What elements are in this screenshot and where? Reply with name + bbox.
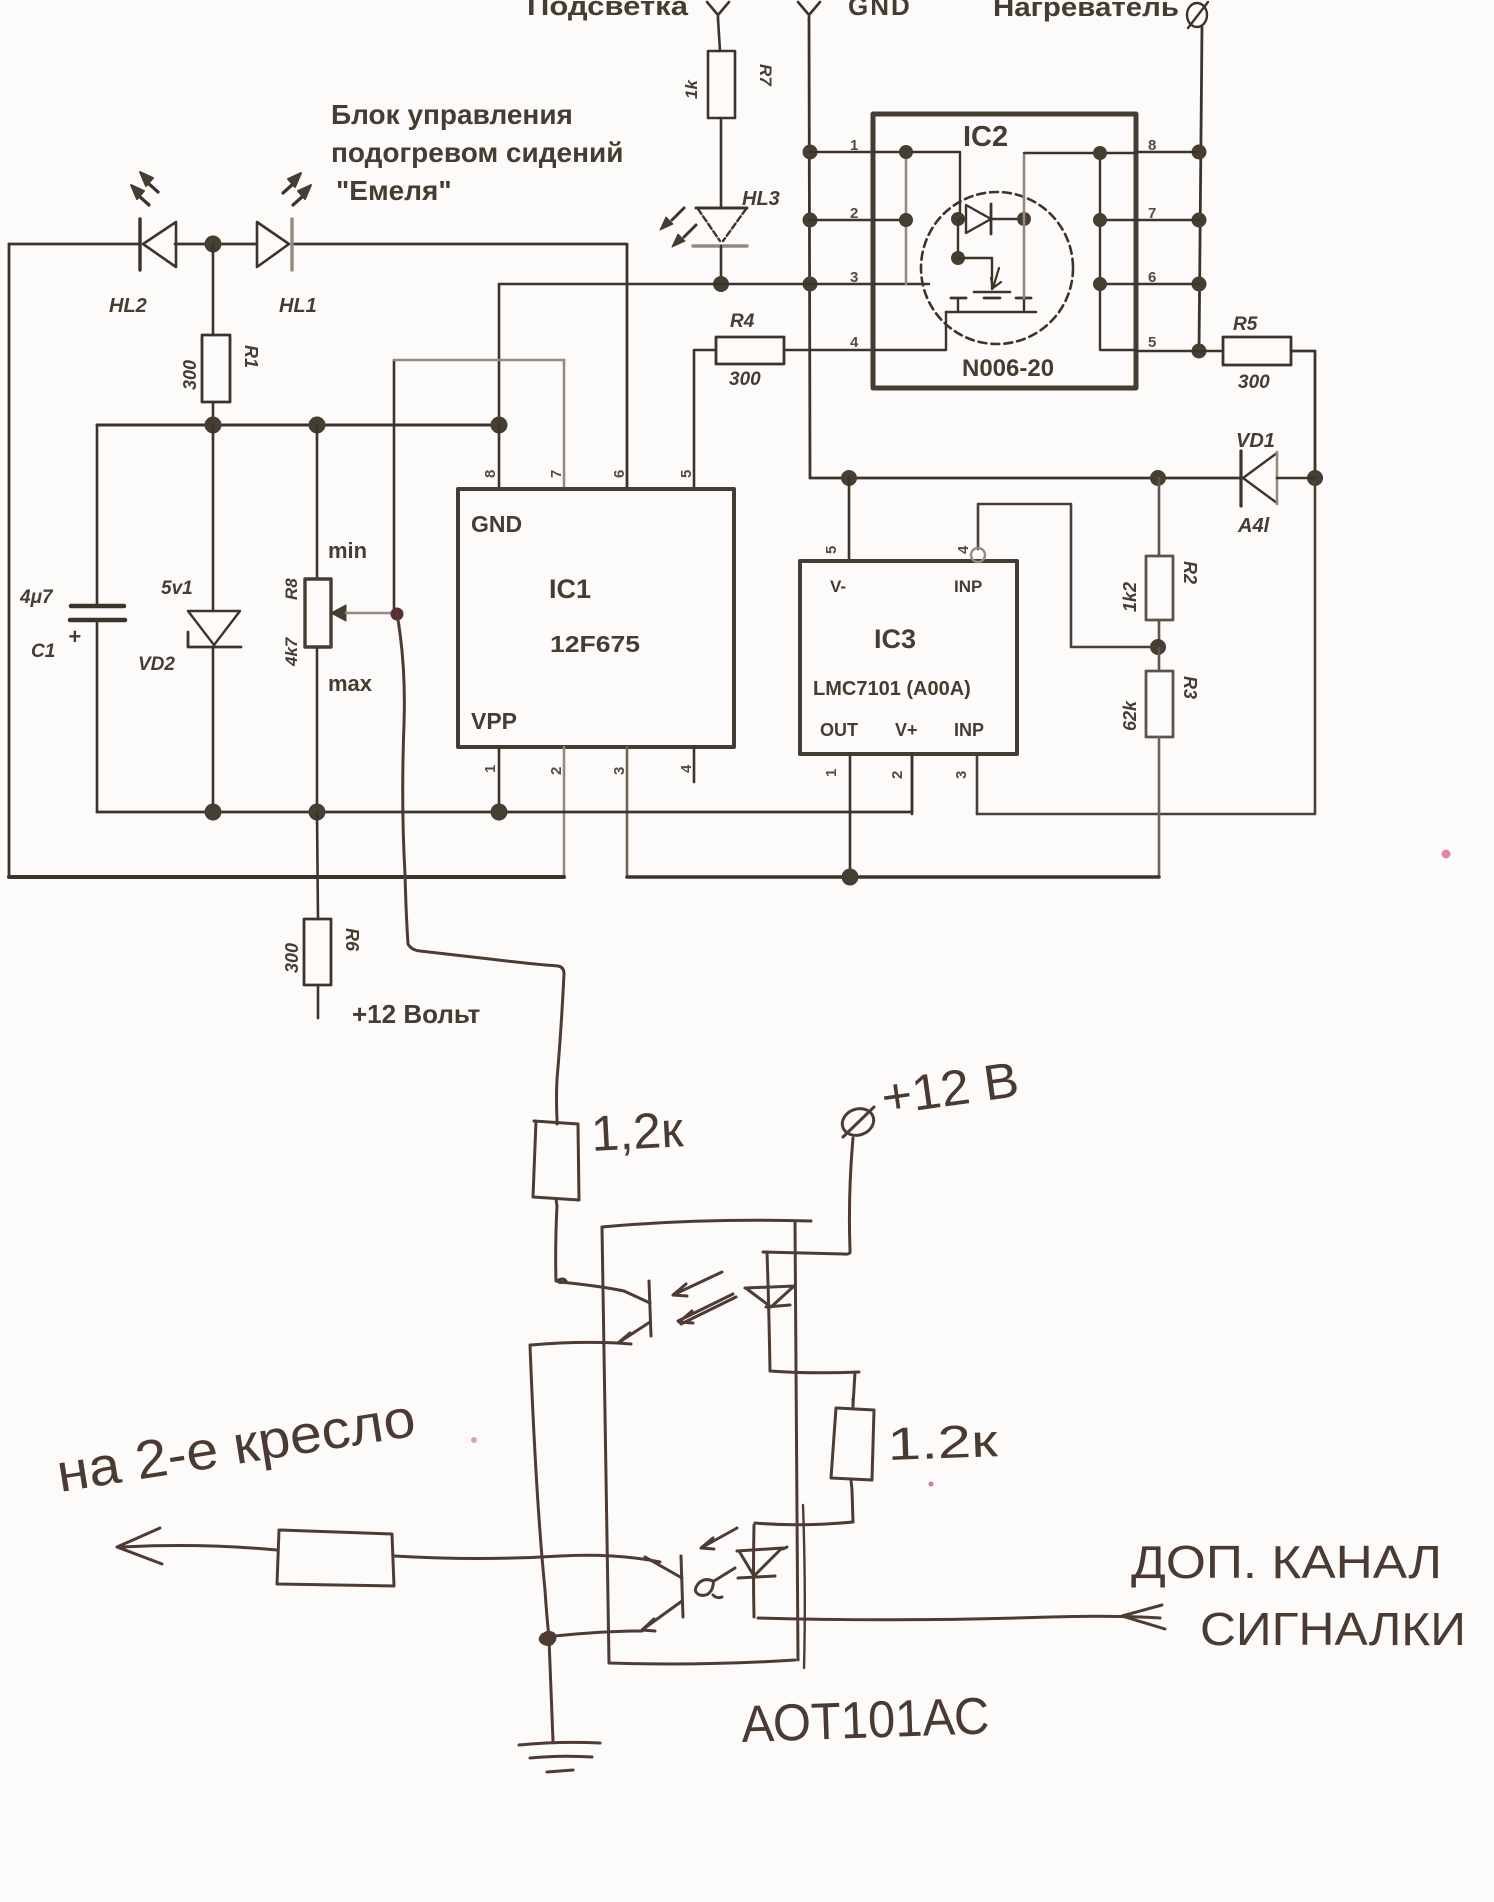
svg-text:R3: R3 (1180, 676, 1200, 699)
svg-text:3: 3 (611, 767, 628, 775)
LED opto1 (767, 1252, 770, 1371)
node VD2 bottom (205, 804, 222, 821)
resistor R4 (716, 337, 784, 364)
svg-text:4k7: 4k7 (282, 636, 301, 667)
node IC1 pin1 bottom (491, 804, 508, 821)
terminal Нагреватель (circle with slash) (1187, 3, 1207, 27)
svg-text:HL1: HL1 (279, 295, 317, 317)
svg-text:+: + (68, 624, 81, 649)
svg-text:1k2: 1k2 (1120, 582, 1140, 612)
LED HL1 (257, 222, 289, 267)
svg-text:5: 5 (1148, 334, 1156, 351)
node GND/IC2 pin1 (803, 145, 818, 160)
svg-text:8: 8 (482, 470, 499, 478)
resistor R3 (1158, 647, 1161, 671)
wire hand squiggle from wiper to 1.2k (397, 614, 564, 1119)
wire HL2 HL1 top rail (9, 244, 627, 489)
svg-text:3: 3 (953, 771, 970, 779)
wire left edge loop (8, 244, 11, 877)
node OUT bottom (842, 869, 859, 886)
node heater pin8 (1192, 145, 1207, 160)
wire +12V down (763, 1138, 853, 1254)
wire IC1 pin4 stub (693, 747, 696, 782)
IC2 internal gate wires (874, 152, 960, 219)
node R8 bus (309, 417, 326, 434)
svg-text:300: 300 (180, 360, 200, 390)
svg-text:max: max (328, 671, 373, 696)
node GND/IC2 pin3 (803, 277, 818, 292)
wire LED2 cathode to signal line (758, 1616, 1160, 1620)
svg-text:7: 7 (548, 470, 565, 478)
svg-text:R5: R5 (1233, 314, 1258, 335)
wire IC2 pin5 to R5 (1136, 350, 1223, 353)
arrow to 2nd seat (117, 1528, 162, 1564)
svg-text:А4l: А4l (1237, 515, 1270, 537)
wire R5 to right rail (1291, 351, 1315, 478)
svg-text:62k: 62k (1120, 700, 1140, 731)
svg-text:12F675: 12F675 (550, 631, 640, 657)
svg-text:R4: R4 (730, 311, 755, 332)
svg-text:Подсветка: Подсветка (527, 0, 689, 21)
node heater pin7 (1192, 213, 1207, 228)
node GND/IC2 pin2 (803, 213, 818, 228)
svg-text:V-: V- (830, 577, 846, 596)
zener VD2 (212, 425, 215, 611)
svg-text:300: 300 (282, 943, 302, 973)
svg-text:4: 4 (678, 764, 695, 773)
svg-text:Блок управления: Блок управления (331, 99, 573, 130)
svg-text:N006-20: N006-20 (962, 355, 1054, 382)
capacitor C1 (96, 425, 99, 604)
wire wiper to IC1 pin7 (394, 359, 564, 362)
wire IC2 pin7 (1136, 219, 1199, 221)
node R2 top junction (1150, 470, 1166, 486)
svg-text:300: 300 (1238, 372, 1270, 393)
svg-text:2: 2 (548, 767, 565, 775)
svg-text:5v1: 5v1 (161, 578, 193, 599)
wire IC3 V+ down (911, 754, 914, 814)
svg-text:min: min (328, 538, 367, 563)
svg-text:1k: 1k (682, 79, 701, 99)
wire IC2 pin8 (1136, 151, 1199, 153)
svg-text:GND: GND (471, 511, 522, 537)
wire pin3 corner down to bus (498, 284, 501, 425)
svg-text:+12 Вольт: +12 Вольт (352, 999, 481, 1029)
svg-text:"Емеля": "Емеля" (336, 175, 452, 206)
svg-text:R6: R6 (342, 928, 362, 952)
IC2 pin numbers left (850, 137, 859, 351)
diode VD1 (1239, 451, 1242, 506)
HL3 light arrows (672, 208, 684, 220)
ground (519, 1742, 600, 1745)
svg-text:5: 5 (823, 546, 840, 554)
node IC1 pin8 bus (491, 417, 508, 434)
phototransistor opto1 (649, 1281, 651, 1336)
wire main y478 (810, 477, 1241, 480)
svg-text:VD1: VD1 (1236, 430, 1275, 452)
wire нагреватель vertical (1199, 27, 1202, 351)
IC2 internal dashed circle (921, 192, 1073, 344)
wire bus y814 (97, 754, 912, 812)
node R1 bus (205, 417, 222, 434)
resistor R6 (317, 812, 318, 919)
wire IC2 pin1 (810, 151, 873, 153)
wire IC1 pin3 down (626, 747, 629, 877)
wire resistor to transistor2 (394, 1555, 660, 1562)
svg-text:5: 5 (678, 470, 695, 478)
svg-text:R8: R8 (282, 578, 301, 600)
svg-text:3: 3 (850, 269, 858, 286)
IC2 internal MOSFET (957, 219, 959, 258)
svg-text:GND: GND (848, 0, 912, 21)
terminal +12V (hand) (839, 1104, 878, 1139)
resistor 1.2k upper (hand) (533, 1119, 579, 1206)
svg-text:2: 2 (850, 205, 858, 222)
svg-text:4μ7: 4μ7 (19, 587, 54, 608)
wire R7 to HL3 (720, 118, 723, 207)
wire emitter1 down left rail (530, 1345, 549, 1637)
node emitter junction blob (541, 1633, 555, 1644)
svg-text:V+: V+ (895, 720, 918, 740)
wire IC3 OUT down (849, 754, 852, 877)
wire IC1 pin5 to R4 (694, 350, 716, 489)
terminal Подсветка (fork) (707, 2, 729, 20)
resistor 1.2k lower (hand) (831, 1399, 874, 1490)
node VD1 right (1307, 470, 1323, 486)
light arrows opto2 (701, 1528, 737, 1549)
svg-text:R7: R7 (756, 64, 775, 87)
node wiper junction blob (391, 608, 404, 621)
resistor R5 (1223, 337, 1291, 365)
resistor R1 (212, 244, 215, 335)
IC1 pin numbers (482, 470, 695, 775)
svg-text:VD2: VD2 (138, 654, 175, 675)
wire IC2 pin2 (810, 219, 873, 221)
wire IC2 pin4 from R4 (784, 349, 873, 352)
svg-text:1: 1 (850, 137, 858, 154)
node heater pin6 (1192, 277, 1207, 292)
pink speck 3 (929, 1482, 934, 1487)
resistor R2 (1158, 478, 1161, 556)
wire подсветка to R7 (718, 19, 720, 51)
wire IC1 pin8 up (498, 425, 501, 489)
IC1 box (458, 489, 734, 747)
svg-text:HL3: HL3 (742, 188, 780, 210)
op-amp IC3 box (800, 561, 1017, 754)
svg-text:6: 6 (611, 470, 628, 478)
node IC3 V- junction (841, 470, 857, 486)
svg-text:1,2к: 1,2к (590, 1101, 686, 1162)
svg-text:1: 1 (823, 769, 840, 777)
svg-text:IC2: IC2 (963, 121, 1008, 153)
wire IC2 pin6 (1136, 283, 1199, 285)
IC3 pin4 bubble (971, 548, 985, 562)
title text block (331, 99, 623, 206)
svg-text:IC1: IC1 (549, 574, 591, 604)
wire IC3 INP top to R2/R3 node (978, 504, 1158, 647)
light arrows opto1 (673, 1272, 722, 1296)
phototransistor opto2 (681, 1556, 683, 1617)
svg-text:1: 1 (482, 765, 499, 773)
terminal GND (fork) (798, 2, 820, 20)
wire IC1 pin2 down (563, 747, 566, 877)
IC2 pin numbers right (1148, 137, 1156, 351)
LED opto2 (752, 1525, 756, 1617)
IC2 internal body diode (951, 212, 965, 226)
svg-text:IC3: IC3 (874, 624, 916, 654)
wire 1.2k lower to LED2 (755, 1490, 853, 1525)
wire 1.2k down to transistor (556, 1206, 557, 1281)
svg-text:INP: INP (954, 720, 984, 740)
svg-text:R2: R2 (1180, 561, 1200, 584)
wire to ground (549, 1639, 553, 1741)
pink speck 2 (471, 1437, 477, 1443)
svg-text:СИГНАЛКИ: СИГНАЛКИ (1200, 1603, 1466, 1655)
svg-text:VPP: VPP (471, 708, 517, 734)
svg-text:R1: R1 (241, 345, 261, 368)
LED HL3 (696, 207, 747, 210)
LED HL2 (138, 219, 141, 270)
svg-text:INP: INP (954, 577, 982, 596)
node heater pin5 (1192, 344, 1207, 359)
op IC2 box (873, 114, 1136, 388)
wire bottom line B (627, 875, 1159, 879)
wire IC1 pin1 down (498, 747, 501, 812)
svg-text:4: 4 (955, 545, 972, 554)
pink speck 1 (1442, 850, 1451, 859)
resistor R7 (708, 51, 735, 118)
potentiometer R8 (316, 425, 319, 579)
wire bus y425 (97, 424, 499, 427)
svg-text:подогревом сидений: подогревом сидений (331, 137, 623, 168)
wire bottom line A (9, 875, 564, 879)
wire GND vertical down to corner (809, 19, 810, 478)
resistor to 2nd seat (hand) (277, 1530, 394, 1586)
node HL3 cathode junction (713, 276, 729, 292)
svg-text:OUT: OUT (820, 720, 858, 740)
svg-text:C1: C1 (31, 641, 55, 662)
node R8 bottom (309, 804, 326, 821)
wire IC3 pin5 (848, 478, 851, 561)
wire IC3 INP bottom down (976, 754, 979, 814)
svg-text:4: 4 (850, 334, 859, 351)
HL2 light arrows (148, 183, 158, 192)
svg-text:АОТ101АС: АОТ101АС (740, 1687, 990, 1754)
wire right rail down (977, 478, 1315, 814)
IC2 internal drain wires (1023, 155, 1026, 298)
IC3 pin numbers (823, 545, 972, 779)
node HL anode junction (205, 236, 222, 253)
wire LED1 cathode to 1.2k lower (770, 1371, 859, 1406)
svg-text:1.2к: 1.2к (887, 1414, 1000, 1470)
svg-text:300: 300 (729, 369, 761, 390)
arrow сигналки (1122, 1605, 1165, 1629)
svg-text:LMC7101 (A00A): LMC7101 (A00A) (813, 678, 971, 700)
node R2/R3 junction (1150, 639, 1166, 655)
svg-text:ДОП. КАНАЛ: ДОП. КАНАЛ (1131, 1536, 1442, 1588)
HL1 light arrows (283, 184, 293, 193)
svg-text:2: 2 (889, 771, 906, 779)
optocoupler box (hand) (602, 1220, 811, 1227)
wire IC2 pin3 to node at x499 (499, 283, 873, 286)
svg-text:HL2: HL2 (109, 295, 147, 317)
svg-text:Нагреватель: Нагреватель (993, 0, 1179, 22)
